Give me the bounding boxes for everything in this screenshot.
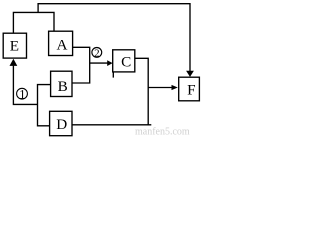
svg-text:C: C <box>121 53 131 70</box>
svg-text:D: D <box>56 116 67 133</box>
svg-text:E: E <box>10 37 19 54</box>
svg-text:1: 1 <box>19 87 25 101</box>
svg-text:manfen5.com: manfen5.com <box>135 127 190 138</box>
svg-text:B: B <box>58 78 68 95</box>
svg-text:F: F <box>187 81 195 98</box>
svg-text:A: A <box>57 37 68 54</box>
svg-text:2: 2 <box>94 48 100 60</box>
